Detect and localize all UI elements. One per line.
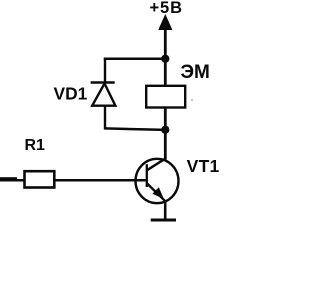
- svg-text:ЭМ: ЭМ: [181, 62, 210, 83]
- svg-text:VT1: VT1: [187, 156, 220, 176]
- svg-text:VD1: VD1: [54, 83, 88, 103]
- svg-text:R1: R1: [25, 137, 46, 154]
- svg-text:+5В: +5В: [150, 0, 183, 17]
